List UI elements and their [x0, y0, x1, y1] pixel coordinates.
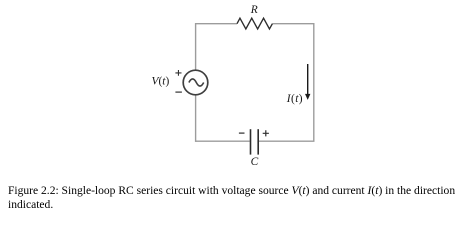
- wire right vertical: [313, 23, 315, 141]
- caption text: [8, 185, 474, 213]
- plus polarity at capacitor: [263, 130, 269, 136]
- wire left lower segment: [195, 95, 197, 142]
- svg-text:R: R: [250, 4, 258, 16]
- resistor R zigzag: [237, 18, 272, 29]
- wire left upper segment: [196, 24, 237, 71]
- capacitor C left plate: [250, 129, 252, 154]
- voltage source sine wave: [189, 79, 204, 86]
- voltage source U1 circle: [183, 70, 208, 95]
- svg-text:V(t): V(t): [152, 76, 170, 88]
- svg-text:C: C: [251, 156, 259, 168]
- current arrow head: [305, 94, 310, 100]
- wire bottom right of capacitor: [259, 140, 315, 142]
- capacitor C right plate: [257, 129, 259, 154]
- wire top right of resistor: [272, 23, 313, 25]
- svg-text:I(t): I(t): [286, 93, 303, 105]
- minus polarity at source: [175, 91, 182, 93]
- current arrow I(t) shaft: [307, 64, 309, 95]
- minus polarity at capacitor: [239, 132, 245, 134]
- wire bottom left of capacitor: [196, 140, 250, 142]
- plus polarity at source: [175, 70, 181, 76]
